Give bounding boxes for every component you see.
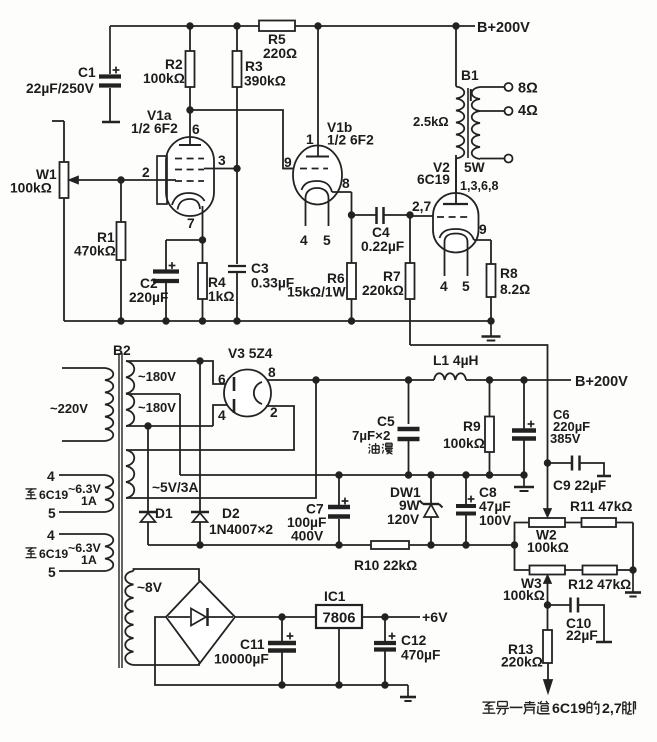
tube V2 plate bbox=[443, 155, 468, 204]
svg-text:6C19: 6C19 bbox=[39, 488, 68, 502]
node B+ junction R3 bbox=[234, 23, 240, 29]
label V1b bbox=[327, 120, 374, 148]
wire ground rail amp bbox=[64, 320, 491, 322]
potentiometer W2 bbox=[515, 463, 582, 555]
svg-text:C5: C5 bbox=[377, 414, 395, 429]
svg-text:4: 4 bbox=[47, 469, 55, 484]
resistor R1 bbox=[74, 180, 126, 321]
pin 4 winding1 bbox=[47, 469, 55, 484]
node B+ junction R2 bbox=[187, 23, 193, 29]
inductor L1 bbox=[433, 353, 479, 380]
svg-text:1N4007×2: 1N4007×2 bbox=[209, 522, 273, 537]
svg-text:5: 5 bbox=[48, 506, 56, 521]
wire V1a cathode pin 7 lead bbox=[202, 206, 204, 240]
wire PSU ground rail bbox=[180, 474, 524, 476]
svg-text:4: 4 bbox=[47, 528, 55, 543]
pin 4 V3 bbox=[218, 408, 226, 423]
pin 5 winding1 bbox=[48, 506, 56, 521]
svg-text:~180V: ~180V bbox=[138, 369, 176, 384]
wire negative rail left bbox=[148, 542, 371, 548]
svg-text:C4: C4 bbox=[372, 225, 390, 240]
label zhi 6C19 winding2 bbox=[26, 547, 69, 561]
svg-text:B+200V: B+200V bbox=[575, 374, 628, 390]
capacitor C9 bbox=[544, 456, 611, 494]
winding 6.3V no1 bbox=[59, 475, 113, 512]
svg-text:22µF: 22µF bbox=[566, 628, 598, 643]
tube V1b cathode bbox=[302, 181, 333, 192]
svg-text:5: 5 bbox=[462, 279, 470, 294]
resistor R10 bbox=[354, 541, 417, 573]
transformer B2 HV winding bbox=[126, 361, 176, 426]
svg-text:100kΩ: 100kΩ bbox=[503, 588, 545, 603]
svg-text:1,3,6,8: 1,3,6,8 bbox=[460, 179, 499, 193]
tube V1a envelope bbox=[166, 137, 214, 216]
resistor R4 bbox=[198, 240, 234, 321]
resistor R3 bbox=[233, 26, 286, 169]
svg-text:47µF: 47µF bbox=[479, 499, 511, 514]
potentiometer W1 bbox=[10, 121, 69, 321]
svg-text:V3 5Z4: V3 5Z4 bbox=[228, 346, 273, 361]
svg-text:400V: 400V bbox=[291, 529, 324, 544]
svg-text:+6V: +6V bbox=[422, 610, 448, 626]
svg-text:R4: R4 bbox=[208, 275, 226, 290]
svg-text:120V: 120V bbox=[387, 512, 420, 527]
svg-text:10000µF: 10000µF bbox=[214, 652, 269, 667]
svg-text:7: 7 bbox=[187, 216, 195, 231]
diode D1 bbox=[139, 426, 173, 545]
svg-text:100V: 100V bbox=[479, 513, 512, 528]
svg-text:100kΩ: 100kΩ bbox=[527, 540, 569, 555]
svg-text:6: 6 bbox=[192, 122, 200, 137]
capacitor C2 bbox=[129, 240, 179, 321]
svg-text:2.5kΩ: 2.5kΩ bbox=[413, 114, 449, 129]
svg-text:6C19: 6C19 bbox=[552, 701, 586, 717]
pin 8 V3 bbox=[268, 365, 276, 380]
svg-text:5: 5 bbox=[48, 565, 56, 580]
wire HV top to V3 pin6 bbox=[126, 358, 233, 384]
svg-text:C9 22µF: C9 22µF bbox=[553, 478, 606, 493]
tube V1a grids bbox=[175, 159, 204, 182]
svg-text:5W: 5W bbox=[464, 160, 486, 175]
svg-text:22µF/250V: 22µF/250V bbox=[26, 81, 95, 96]
capacitor C6 bbox=[512, 377, 590, 478]
ground R8 bbox=[482, 321, 501, 341]
label V1a bbox=[131, 108, 178, 136]
tube V2 cathode bbox=[440, 229, 475, 240]
transformer B1 core bbox=[468, 88, 471, 158]
svg-text:B1: B1 bbox=[461, 68, 479, 83]
svg-text:8: 8 bbox=[342, 176, 350, 191]
wire B+ after L1 bbox=[466, 379, 571, 381]
svg-text:6C19: 6C19 bbox=[39, 547, 68, 561]
pin 4 winding2 bbox=[47, 528, 55, 543]
svg-text:R12 47kΩ: R12 47kΩ bbox=[568, 577, 631, 592]
label 6.3V 1A no1 bbox=[68, 482, 101, 508]
svg-text:C1: C1 bbox=[78, 65, 96, 80]
node gnd R1 bbox=[118, 318, 124, 324]
tube V1a cathode bbox=[172, 193, 205, 205]
svg-text:R11 47kΩ: R11 47kΩ bbox=[570, 499, 632, 514]
resistor R6 bbox=[287, 215, 356, 321]
wire IC1 output bbox=[362, 614, 420, 620]
label 5W B1 bbox=[464, 160, 486, 175]
wire V1a plate to V1b grid bbox=[187, 107, 294, 169]
transformer B1 secondary bbox=[472, 87, 480, 159]
node gnd C3 bbox=[234, 318, 240, 324]
label 6.3V 1A no2 bbox=[68, 541, 101, 567]
capacitor C4 bbox=[352, 207, 411, 254]
svg-text:1/2 6F2: 1/2 6F2 bbox=[327, 133, 374, 148]
bridge rectifier bbox=[166, 581, 235, 663]
terminal common bbox=[480, 155, 513, 163]
svg-text:6C19: 6C19 bbox=[417, 172, 450, 187]
wire V1a screen to R3 bbox=[204, 165, 240, 171]
svg-text:470µF: 470µF bbox=[401, 648, 440, 663]
svg-text:~220V: ~220V bbox=[50, 401, 88, 416]
svg-text:IC1: IC1 bbox=[324, 589, 346, 604]
svg-text:3: 3 bbox=[218, 153, 226, 168]
label V2 bbox=[417, 160, 450, 187]
wire 5V bottom to B+ bbox=[126, 380, 316, 498]
svg-text:2,7: 2,7 bbox=[412, 199, 432, 214]
svg-text:4: 4 bbox=[300, 233, 308, 248]
svg-text:L1 4µH: L1 4µH bbox=[433, 353, 479, 368]
svg-text:~180V: ~180V bbox=[138, 400, 176, 415]
winding 8V bbox=[125, 569, 199, 665]
transformer B2 core bbox=[119, 353, 122, 668]
tube V2 filament bbox=[445, 234, 468, 277]
svg-text:5: 5 bbox=[323, 233, 331, 248]
node gnd R8 bbox=[488, 318, 494, 324]
label B1 bbox=[461, 68, 479, 83]
svg-text:7806: 7806 bbox=[323, 611, 356, 627]
svg-text:470kΩ: 470kΩ bbox=[74, 244, 116, 259]
regulator IC1 bbox=[316, 589, 362, 628]
wire feedback R7 to W2 bbox=[410, 345, 548, 463]
label pins 2,7 V2 bbox=[412, 199, 432, 214]
wire B+ rail right segment bbox=[295, 25, 475, 27]
pin 5 V1b bbox=[323, 233, 331, 248]
wire B1 primary to V2 plate bbox=[455, 159, 457, 194]
capacitor C12 bbox=[374, 617, 440, 688]
pin 1 V1b bbox=[306, 132, 314, 147]
svg-text:D1: D1 bbox=[155, 506, 173, 521]
svg-text:220kΩ: 220kΩ bbox=[362, 283, 404, 298]
capacitor C7 bbox=[287, 472, 350, 545]
pin 4 V2 bbox=[440, 279, 448, 294]
svg-text:R5: R5 bbox=[268, 32, 286, 47]
tube V1a filament bbox=[178, 199, 201, 210]
wire grid node to V1a bbox=[121, 179, 176, 181]
svg-text:R7: R7 bbox=[383, 269, 401, 284]
svg-text:C2: C2 bbox=[140, 276, 158, 291]
pin 9 V2 bbox=[479, 222, 487, 237]
transformer B1 primary bbox=[413, 87, 464, 159]
tube V1b grid bbox=[300, 168, 328, 170]
diode D2 bbox=[191, 361, 273, 545]
svg-text:1: 1 bbox=[306, 132, 314, 147]
tube V3 plate 1 bbox=[233, 377, 236, 391]
label B2 bbox=[113, 343, 131, 358]
pin 5 V2 bbox=[462, 279, 470, 294]
svg-text:4Ω: 4Ω bbox=[518, 103, 538, 119]
svg-text:1A: 1A bbox=[81, 553, 97, 567]
svg-text:6: 6 bbox=[218, 372, 226, 387]
capacitor C11 bbox=[214, 617, 296, 688]
wire V1b grid lead bbox=[283, 168, 294, 170]
terminal 4 ohm bbox=[480, 103, 538, 119]
tube V1b filament bbox=[306, 188, 329, 226]
label B+200V bbox=[477, 20, 530, 36]
capacitor C5 bbox=[352, 377, 420, 478]
svg-text:220µF: 220µF bbox=[129, 290, 168, 305]
svg-text:8Ω: 8Ω bbox=[518, 81, 538, 97]
svg-text:9: 9 bbox=[479, 222, 487, 237]
svg-text:R8: R8 bbox=[500, 266, 518, 281]
wire bridge minus bbox=[155, 617, 408, 685]
wire HV center tap bbox=[126, 394, 180, 475]
wire negative rail right bbox=[409, 542, 518, 548]
svg-text:R9: R9 bbox=[463, 419, 481, 434]
node B+ junction V1b plate bbox=[315, 23, 321, 29]
pin 9 V1b bbox=[284, 155, 292, 170]
node gnd C2 bbox=[163, 318, 169, 324]
wire cathode node bbox=[166, 237, 206, 243]
node gnd R6 bbox=[348, 318, 354, 324]
wire HV bottom to V3 pin4 bbox=[126, 405, 233, 429]
label B+200V psu bbox=[575, 374, 628, 390]
tube V3 plate 2 bbox=[233, 399, 236, 413]
label pins 1,3,6,8 bbox=[460, 179, 499, 193]
capacitor C10 bbox=[544, 598, 612, 644]
svg-text:220Ω: 220Ω bbox=[263, 46, 297, 61]
resistor R7 bbox=[362, 212, 415, 345]
pin 8 V1b bbox=[342, 176, 350, 191]
svg-text:385V: 385V bbox=[550, 431, 581, 446]
capacitor C3 bbox=[228, 169, 294, 322]
tube V2 grid bbox=[437, 216, 470, 218]
svg-text:1/2 6F2: 1/2 6F2 bbox=[131, 121, 178, 136]
resistor R2 bbox=[143, 26, 195, 110]
svg-text:9W: 9W bbox=[399, 498, 421, 513]
svg-text:1kΩ: 1kΩ bbox=[208, 289, 234, 304]
transformer B2 5V winding bbox=[126, 450, 198, 498]
ground bottom rail bbox=[400, 685, 416, 701]
svg-text:C8: C8 bbox=[479, 485, 497, 500]
svg-text:D2: D2 bbox=[222, 506, 240, 521]
svg-text:8: 8 bbox=[268, 365, 276, 380]
svg-text:100kΩ: 100kΩ bbox=[143, 71, 185, 86]
svg-text:~8V: ~8V bbox=[137, 580, 163, 595]
tube V1a grid box bbox=[157, 156, 167, 204]
tube V3 envelope bbox=[224, 370, 271, 417]
svg-text:R2: R2 bbox=[165, 57, 183, 72]
wire W1 wiper arrow bbox=[70, 177, 122, 184]
resistor R12 bbox=[568, 566, 636, 593]
label you-jin (oil immersed) C5 bbox=[369, 443, 393, 454]
svg-text:100kΩ: 100kΩ bbox=[10, 181, 52, 196]
svg-text:100kΩ: 100kΩ bbox=[443, 436, 485, 451]
svg-text:C3: C3 bbox=[251, 261, 269, 276]
svg-text:2: 2 bbox=[142, 165, 150, 180]
label V3 5Z4 bbox=[228, 346, 273, 361]
capacitor C8 bbox=[456, 472, 512, 545]
svg-text:220kΩ: 220kΩ bbox=[501, 655, 543, 670]
resistor R8 bbox=[487, 264, 531, 321]
svg-text:B2: B2 bbox=[113, 343, 131, 358]
transformer B1 primary lead top bbox=[455, 26, 457, 87]
pin 6 V1a bbox=[192, 122, 200, 137]
tube V3 filament bbox=[254, 382, 262, 404]
resistor R13 bbox=[501, 605, 552, 693]
tube V1b envelope bbox=[293, 146, 342, 205]
capacitor C1 bbox=[26, 26, 121, 122]
winding 6.3V no2 bbox=[59, 534, 113, 571]
wire IC1 ground pin bbox=[336, 628, 342, 688]
pin 5 winding2 bbox=[48, 565, 56, 580]
node gnd R4 bbox=[199, 318, 205, 324]
transformer B2 primary 220V bbox=[50, 368, 113, 441]
svg-text:R10 22kΩ: R10 22kΩ bbox=[354, 558, 417, 573]
wire bridge plus bbox=[235, 614, 316, 620]
svg-text:C11: C11 bbox=[240, 637, 265, 652]
svg-text:B+200V: B+200V bbox=[477, 20, 530, 36]
resistor R11 bbox=[570, 499, 633, 570]
zener DW1 bbox=[387, 472, 443, 545]
pin 6 V3 bbox=[218, 372, 226, 387]
wire V3 pin2 to 5V top bbox=[126, 406, 294, 450]
label to other channel 6C19 pins 2,7 bbox=[483, 701, 636, 717]
pin 2 V1a bbox=[142, 165, 150, 180]
potentiometer W3 bbox=[503, 546, 583, 605]
resistor R5 bbox=[259, 21, 297, 62]
label +6V bbox=[422, 610, 448, 626]
svg-text:9: 9 bbox=[284, 155, 292, 170]
wire V3 pin8 B+ out bbox=[267, 377, 434, 383]
svg-text:390kΩ: 390kΩ bbox=[244, 74, 286, 89]
pin 4 V1b bbox=[300, 233, 308, 248]
wire B+ rail left segment bbox=[110, 25, 259, 27]
svg-text:2,7: 2,7 bbox=[602, 701, 622, 717]
tube V2 envelope bbox=[433, 193, 479, 253]
svg-text:4: 4 bbox=[218, 408, 226, 423]
ground R12 bbox=[625, 570, 641, 597]
tube V1b plate bbox=[306, 26, 329, 157]
pin 7 V1a bbox=[187, 216, 195, 231]
svg-text:7µF×2: 7µF×2 bbox=[352, 428, 390, 443]
wire V2 cathode to R8 bbox=[474, 240, 491, 264]
label zhi 6C19 winding1 bbox=[26, 488, 69, 502]
resistor R9 bbox=[443, 377, 494, 478]
tube V1a plate bbox=[179, 110, 201, 145]
svg-text:8.2Ω: 8.2Ω bbox=[500, 282, 530, 297]
svg-text:4: 4 bbox=[440, 279, 448, 294]
svg-text:2: 2 bbox=[270, 405, 278, 420]
pin 3 V1a bbox=[218, 153, 226, 168]
wire V2 grid bbox=[410, 215, 433, 217]
svg-text:1A: 1A bbox=[81, 494, 97, 508]
node V1a grid junction bbox=[118, 177, 124, 183]
terminal 8 ohm bbox=[480, 81, 538, 97]
svg-text:~5V/3A: ~5V/3A bbox=[152, 480, 198, 495]
svg-text:R3: R3 bbox=[245, 59, 263, 74]
ground C6 bbox=[514, 475, 534, 491]
wire V1b cathode out bbox=[332, 192, 355, 218]
svg-text:0.22µF: 0.22µF bbox=[361, 239, 404, 254]
node B+ junction B1 primary bbox=[453, 23, 459, 29]
svg-text:C12: C12 bbox=[401, 633, 427, 648]
svg-text:15kΩ/1W: 15kΩ/1W bbox=[287, 285, 347, 300]
pin 2 V3 bbox=[270, 405, 278, 420]
